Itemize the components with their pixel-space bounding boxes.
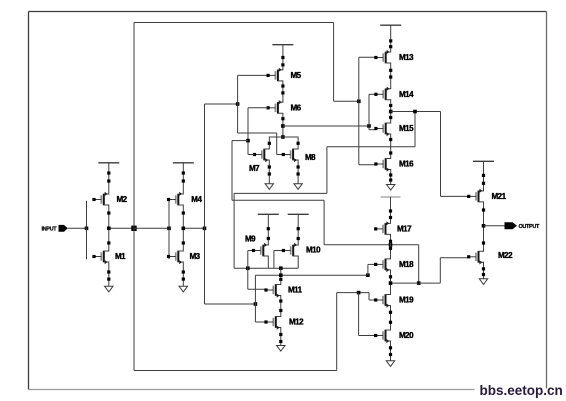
wire vdd to M2 source bbox=[108, 163, 110, 190]
wire node B top to M5 gate net bbox=[205, 103, 238, 105]
svg-text:M21: M21 bbox=[492, 192, 507, 201]
pins M4 source chain bbox=[182, 171, 185, 182]
ground below M20 bbox=[386, 361, 394, 367]
wire to M8 gate pin bbox=[277, 154, 284, 156]
pins M1 source chain bbox=[107, 270, 110, 280]
border frame right bbox=[546, 12, 548, 389]
wire M10 gate to drain net bbox=[273, 251, 275, 269]
wire M17 drain to M18 source bbox=[390, 238, 392, 255]
wire M1 M2 gate bus bbox=[86, 201, 88, 259]
pins M4-M3 node bbox=[182, 211, 185, 244]
transistor M5 bbox=[267, 66, 283, 85]
wire loop bottom bbox=[134, 370, 337, 372]
transistor M3 bbox=[167, 247, 183, 266]
wire to M7 gate pin bbox=[248, 154, 255, 156]
svg-text:M18: M18 bbox=[399, 260, 414, 269]
wire M16 source to ground bbox=[390, 174, 392, 185]
wire loop top right down bbox=[333, 23, 335, 102]
svg-text:M13: M13 bbox=[399, 53, 414, 62]
wire node B vertical bbox=[204, 104, 206, 304]
junction net D at M11 column bbox=[279, 273, 283, 277]
wire to M19 gate pin bbox=[369, 299, 376, 301]
pins M10 source chain bbox=[297, 227, 300, 240]
pins M12 source chain bbox=[279, 333, 282, 343]
pins M8 source chain bbox=[297, 165, 300, 175]
transistor M14 bbox=[374, 85, 390, 104]
wire vdd to M9 source bbox=[267, 214, 269, 241]
wire down to M21 gate bbox=[440, 112, 442, 197]
wire M22 source to ground bbox=[483, 266, 485, 279]
vdd T-bar above M4 bbox=[173, 162, 194, 164]
svg-text:M16: M16 bbox=[399, 160, 414, 169]
svg-text:M22: M22 bbox=[498, 251, 513, 260]
wire M6 drain chain bbox=[282, 117, 284, 137]
transistor M8 bbox=[282, 145, 298, 164]
wire to M11 gate pin bbox=[248, 288, 266, 290]
wire vdd to M13 source bbox=[390, 25, 392, 48]
wire to M21 gate pin bbox=[441, 195, 469, 197]
vdd T-bar above M5 bbox=[272, 44, 293, 46]
wire M18 drain to M19 drain bbox=[390, 274, 392, 291]
vdd T-bar above M17 bbox=[381, 196, 401, 198]
wire vdd to M21 source bbox=[483, 161, 485, 187]
junction input at gate bus bbox=[85, 227, 89, 231]
junction M13 M16 gate bus bbox=[357, 100, 361, 104]
transistor M6 bbox=[267, 98, 283, 117]
wire to M14 gate pin bbox=[369, 93, 376, 95]
wire node B bottom to M12 gate net bbox=[205, 303, 256, 305]
pins M3 source chain bbox=[182, 270, 185, 280]
wire M13 M16 gate bus bbox=[358, 57, 360, 164]
wire net E vertical 1 bbox=[231, 141, 233, 201]
transistor M22 bbox=[467, 247, 483, 266]
pins M5-M6 node bbox=[281, 84, 284, 94]
junction M6 M7 gate net bbox=[246, 139, 250, 143]
junction M9 M11 gate branch bbox=[246, 266, 250, 270]
svg-text:M2: M2 bbox=[117, 195, 128, 204]
wire to M6 gate pin bbox=[248, 107, 268, 109]
ground below M3 bbox=[179, 286, 187, 292]
ground below M8 bbox=[294, 184, 302, 190]
wire net F vertical left bbox=[233, 193, 235, 268]
wire M11 source to M12 drain bbox=[280, 300, 282, 313]
junction net E at M17 M18 node bbox=[389, 243, 393, 247]
transistor M19 bbox=[374, 291, 390, 310]
pins M11-M12 node bbox=[279, 299, 282, 312]
svg-text:M12: M12 bbox=[289, 318, 304, 327]
wire M5 gate net to M8 gate bbox=[238, 132, 277, 134]
svg-text:M6: M6 bbox=[291, 104, 302, 113]
wire down to M8 gate bbox=[276, 133, 278, 155]
wire M3 source to ground bbox=[182, 266, 184, 286]
junction M11 drain bbox=[279, 266, 283, 270]
wire M21 drain to M22 drain bbox=[483, 206, 485, 247]
junction M14 M15 node bbox=[389, 110, 393, 114]
wire down to M20 gate bbox=[358, 293, 360, 336]
wire M7 drain to M6 drain to M8 drain bbox=[269, 137, 298, 145]
pins M6 drain bbox=[281, 117, 284, 120]
pins M18-M19 node bbox=[389, 275, 392, 278]
transistor M10 bbox=[282, 241, 298, 260]
pins M15-M16 node bbox=[389, 138, 392, 155]
wire vdd to M5 source bbox=[282, 45, 284, 66]
wire to M12 gate pin bbox=[255, 321, 265, 323]
wire M9 drain down bbox=[267, 260, 269, 268]
wire input to gate bus bbox=[68, 227, 87, 229]
transistor M16 bbox=[374, 155, 390, 174]
pin M8 drain bbox=[297, 142, 300, 145]
wire M2 drain to M1 drain bbox=[108, 209, 110, 247]
wire up to M18 gate bbox=[367, 264, 369, 275]
wire net E horizontal 1 bbox=[232, 199, 324, 201]
wire loop top bbox=[134, 22, 334, 24]
wire M12 gate vertical bbox=[254, 275, 256, 322]
junction M6 drain to M14 M15 gates bbox=[281, 124, 285, 128]
wire to M22 gate pin bbox=[440, 257, 468, 259]
junction M2 M1 drains bbox=[107, 227, 111, 231]
wire M6 M7 gate vertical bbox=[247, 108, 249, 155]
pins M22 source chain bbox=[482, 267, 485, 276]
wire M5 drain to M6 source bbox=[282, 85, 284, 98]
wire loop bottom right up bbox=[336, 293, 338, 371]
transistor M9 bbox=[252, 241, 268, 260]
wire down to M19 gate bbox=[368, 293, 370, 300]
svg-text:M8: M8 bbox=[305, 153, 316, 162]
svg-text:M1: M1 bbox=[115, 252, 126, 261]
svg-text:M9: M9 bbox=[245, 235, 256, 244]
wire vdd to M4 source bbox=[182, 163, 184, 190]
wire net D to M18 gate bbox=[255, 274, 368, 276]
ground below M12 bbox=[277, 346, 285, 352]
pins M17 source chain bbox=[389, 209, 392, 219]
junction on M12 gate net bbox=[254, 302, 258, 306]
transistor M13 bbox=[374, 48, 390, 67]
junction M4 M3 drains bbox=[182, 227, 186, 231]
wire net E vertical 2 bbox=[323, 200, 325, 245]
wire net F from M14 M15 node bbox=[414, 112, 416, 147]
pins M2-M1 node bbox=[107, 211, 110, 244]
transistor M4 bbox=[167, 190, 183, 209]
junction net E joins M18 M19 node bbox=[417, 281, 421, 285]
vdd T-bar above M13 bbox=[380, 24, 401, 26]
wire vdd to M17 source bbox=[390, 197, 392, 219]
transistor M18 bbox=[374, 255, 390, 274]
junction net F branch bbox=[413, 110, 417, 114]
junction M18 M19 node bbox=[389, 281, 393, 285]
svg-text:M15: M15 bbox=[399, 124, 414, 133]
pins M17-M18 node bbox=[389, 240, 392, 250]
pin M7 drain bbox=[268, 142, 271, 145]
wire net F vertical mid bbox=[326, 147, 328, 194]
wire M4 drain to M3 drain bbox=[182, 209, 184, 247]
transistor M15 bbox=[374, 119, 390, 138]
pins M14-M15 node bbox=[389, 104, 392, 119]
vdd T-bar above M9 bbox=[258, 213, 279, 215]
transistor M20 bbox=[374, 326, 390, 345]
wire M13 drain to M14 source bbox=[390, 67, 392, 85]
svg-text:M7: M7 bbox=[249, 164, 260, 173]
wire up to M22 gate bbox=[439, 258, 441, 283]
ground below M16 bbox=[387, 185, 395, 191]
wire to M19 M20 gates bbox=[337, 292, 369, 294]
wire M20 source to ground bbox=[390, 345, 392, 361]
wire vdd to M10 source bbox=[297, 214, 299, 241]
pins M21 source chain bbox=[482, 174, 485, 185]
pins M13 source chain bbox=[389, 39, 392, 48]
wire M5 gate vertical bbox=[237, 75, 239, 133]
wire node A long vertical bbox=[133, 23, 135, 371]
svg-text:M4: M4 bbox=[191, 195, 202, 204]
input pin arrow bbox=[59, 225, 68, 232]
wire M11 drain up bbox=[280, 268, 282, 280]
svg-text:M14: M14 bbox=[399, 90, 414, 99]
transistor M2 bbox=[92, 190, 108, 209]
wire M6 drain to M14 M15 gate bracket bbox=[283, 125, 369, 127]
pins M11 drain chain bbox=[279, 274, 282, 282]
transistor M7 bbox=[253, 145, 269, 164]
wire M14 M15 gate bracket bbox=[368, 94, 370, 129]
junction node A at inverter2 bus bbox=[167, 227, 171, 231]
wire net F horizontal top bbox=[327, 146, 415, 148]
junction M6 drain to M7 M8 drains bbox=[281, 135, 285, 139]
pins M20 source chain bbox=[389, 346, 392, 356]
wire to M9 gate pin bbox=[248, 250, 254, 252]
svg-text:OUTPUT: OUTPUT bbox=[519, 224, 541, 230]
ground below M1 bbox=[105, 286, 113, 292]
transistor M17 bbox=[374, 219, 390, 238]
node A big junction bbox=[131, 226, 136, 231]
svg-text:M11: M11 bbox=[288, 286, 303, 295]
wire M10 gate branch bbox=[274, 250, 284, 252]
wire net E left bbox=[232, 140, 248, 142]
svg-text:INPUT: INPUT bbox=[42, 226, 58, 232]
svg-text:M10: M10 bbox=[306, 246, 321, 255]
pins M9 source chain bbox=[267, 227, 270, 240]
svg-text:M17: M17 bbox=[397, 225, 412, 234]
wire to M5 gate bbox=[238, 74, 269, 76]
pins M13-M14 node bbox=[389, 69, 392, 79]
pins M21-M22 node bbox=[482, 208, 485, 244]
wire M14 drain to M15 source bbox=[390, 104, 392, 119]
transistor M11 bbox=[264, 281, 280, 300]
wire net F to M9 M10 M11 drains bbox=[234, 267, 298, 269]
wire M3 M4 gate bus bbox=[168, 201, 170, 259]
wire M18 M19 node to M22 gate bbox=[391, 282, 441, 284]
wire net E horizontal 2 bbox=[324, 244, 419, 246]
wire to M13 gate pin bbox=[359, 56, 376, 58]
wire net E vertical 3 bbox=[418, 245, 420, 283]
wire to M16 gate pin bbox=[359, 164, 376, 166]
ground below M22 bbox=[479, 279, 487, 285]
wire M1 source to ground bbox=[108, 266, 110, 286]
wire inverter1 output bbox=[109, 227, 134, 229]
pins M7 source chain bbox=[268, 165, 271, 175]
pins M16 source chain bbox=[389, 173, 392, 181]
junction output node bbox=[482, 224, 486, 228]
vdd T-bar above M10 bbox=[288, 213, 309, 215]
border frame top bbox=[29, 11, 547, 13]
ground below M7 bbox=[265, 184, 273, 190]
pins M2 source chain bbox=[107, 171, 110, 182]
junction M20 gate branch bbox=[357, 291, 361, 295]
wire M15 drain to M16 drain bbox=[390, 138, 392, 155]
transistor M21 bbox=[467, 187, 483, 206]
svg-text:M20: M20 bbox=[399, 331, 414, 340]
pins M5 source chain bbox=[281, 56, 284, 67]
vdd T-bar above M2 bbox=[98, 162, 119, 164]
wire inverter2 output bbox=[183, 227, 204, 229]
svg-text:M3: M3 bbox=[190, 252, 201, 261]
wire to M18 gate pin bbox=[368, 263, 376, 265]
junction M14 M15 gate bracket bbox=[367, 124, 371, 128]
svg-text:M19: M19 bbox=[399, 296, 414, 305]
output pin arrow bbox=[505, 222, 518, 229]
border frame bottom bbox=[29, 389, 475, 391]
border frame left bbox=[28, 12, 30, 390]
wire M19 source to M20 drain bbox=[390, 310, 392, 327]
wire M14 M15 node to M21 gate bbox=[391, 111, 441, 113]
wire M7 source to ground bbox=[268, 164, 270, 184]
pins M19-M20 node bbox=[389, 311, 392, 324]
wire M8 source to ground bbox=[297, 164, 299, 184]
junction on M5 gate net bbox=[236, 102, 240, 106]
transistor M1 bbox=[92, 247, 108, 266]
svg-text:bbs.eetop.cn: bbs.eetop.cn bbox=[480, 383, 563, 398]
junction net D to M18 bbox=[366, 273, 370, 277]
wire to M20 gate pin bbox=[359, 335, 376, 337]
wire net F horizontal mid bbox=[234, 192, 327, 194]
svg-text:M5: M5 bbox=[291, 71, 302, 80]
wire to M13 M16 gate bus bbox=[334, 100, 359, 102]
junction node B bbox=[203, 227, 207, 231]
wire M10 drain down bbox=[297, 260, 299, 268]
wire node A to inverter2 gate bus bbox=[134, 227, 169, 229]
wire M9 M11 gate vertical bbox=[247, 251, 249, 290]
transistor M12 bbox=[264, 313, 280, 332]
vdd T-bar above M21 bbox=[473, 160, 494, 162]
wire to M15 gate pin bbox=[369, 129, 376, 131]
wire M12 source to ground bbox=[280, 332, 282, 346]
wire output node to pin bbox=[484, 225, 505, 227]
